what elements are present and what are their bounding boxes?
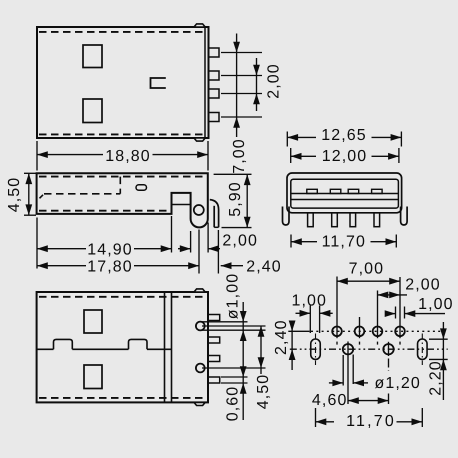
svg-text:11,70: 11,70 <box>322 234 366 251</box>
footprint hole A1 vertical centre line <box>336 277 338 339</box>
dim 1,00 left extension line b <box>319 306 321 334</box>
view3 hidden edge top (dashed) <box>39 296 204 298</box>
dim 2,40 footprint arrow top <box>289 321 296 332</box>
dim 2,00 arrow bottom <box>253 94 260 105</box>
view4 receptacle shell outline <box>291 179 399 208</box>
dim 1,00 left extension line a <box>309 306 311 334</box>
view3 contact pin 2 <box>208 337 220 343</box>
extension line left edge down <box>36 218 38 269</box>
svg-text:12,00: 12,00 <box>322 148 368 165</box>
svg-text:2,00: 2,00 <box>222 233 258 250</box>
dim 11,70 tick right <box>395 235 397 248</box>
svg-text:4,60: 4,60 <box>312 392 348 409</box>
view1 contact pin 1 <box>209 48 220 57</box>
view2 hidden line top (dashed) <box>39 176 205 178</box>
view3 shell joint middle line <box>37 348 54 350</box>
svg-text:4,50: 4,50 <box>6 177 23 213</box>
dim 12,00 arrow left <box>291 153 302 160</box>
dim 1,00 right extension line b <box>404 307 406 319</box>
footprint row2 centre line (dash-dot) <box>290 348 448 350</box>
view3 rivet hole upper <box>196 322 205 331</box>
dim 17,80 arrow right <box>188 262 199 269</box>
footprint hole A4 vertical centre line <box>399 277 401 338</box>
dim 14,90 arrow left <box>37 245 48 252</box>
dim 12,00 tick left <box>290 148 292 163</box>
svg-text:2,00: 2,00 <box>265 63 282 99</box>
view2 solder pin end <box>214 226 218 228</box>
dim 7,00 footprint arrow right <box>389 278 400 285</box>
view2 solder pin outer edge <box>210 200 219 228</box>
dim oe1,20 extension line a <box>342 355 344 386</box>
pin4 top extension <box>221 376 248 378</box>
dim 2,00 dimension line vertical <box>256 58 258 111</box>
view3 joint tab right <box>129 339 148 349</box>
view1 crimp bump bottom edge <box>194 138 205 141</box>
view1 hidden edge bottom (dashed) <box>39 133 204 135</box>
svg-text:12,65: 12,65 <box>321 127 367 144</box>
dim oe1,20 arrow a <box>329 382 343 384</box>
view1 latch hole lower <box>83 99 102 123</box>
dim 18,80 arrow left <box>37 151 48 158</box>
dim 11,70 arrow left <box>291 238 302 245</box>
dim 4,60 dimension line <box>348 400 389 402</box>
dim 2,00 footprint arrow left <box>378 292 389 299</box>
dim oe1,00 arrow top <box>240 311 247 322</box>
footprint shield hole B2 <box>383 344 393 354</box>
dim 4,50 rivet arrow bottom <box>258 357 265 368</box>
view2 side oval hole <box>136 185 147 191</box>
dim 5,90 dimension line <box>246 174 248 227</box>
extension line hook right x=208.1 <box>207 223 209 253</box>
svg-text:ø1,00: ø1,00 <box>225 273 242 319</box>
view4 mount tab left <box>283 207 290 226</box>
view3 rivet hole lower <box>196 364 205 373</box>
view4 contact 2 <box>330 189 341 193</box>
svg-text:2,40: 2,40 <box>273 319 290 355</box>
view1 latch hole upper <box>83 45 102 68</box>
view3 crimp bump top edge <box>194 289 205 292</box>
footprint shield hole B2 vertical centre line <box>388 342 390 356</box>
view4 contact 4 <box>372 189 383 193</box>
dim 4,50 arrow top <box>25 173 32 184</box>
view3 latch hole upper <box>84 310 102 333</box>
dim 5,90 extension line top <box>214 173 252 175</box>
svg-text:4,50: 4,50 <box>255 374 272 410</box>
footprint row1 centre line (dash-dot) <box>311 330 444 332</box>
dim 4,50 tick top <box>24 172 36 174</box>
dim 2,00 arrow top <box>253 65 260 76</box>
view1 shell end inner line <box>204 28 206 137</box>
view2 rivet hole <box>194 205 204 215</box>
dim 11,70 footprint tick right <box>421 408 423 427</box>
view4 receptacle outer flange outline <box>287 173 402 213</box>
view1 crimp bump top edge <box>194 24 205 27</box>
dim 18,80 extension line left <box>36 141 38 171</box>
dim 5,90 extension line bottom <box>222 227 252 229</box>
dim 0,60 arrow top <box>240 366 247 377</box>
dim 2,20 dimension line <box>442 322 444 400</box>
view3 shell seam line left <box>164 293 166 402</box>
extension line hook centre x=199 <box>198 230 200 274</box>
view3 shell seam line right <box>171 293 173 402</box>
view1 center detent detail <box>151 78 166 88</box>
rivet lower centre extension <box>202 367 266 369</box>
dim 5,90 arrow top <box>244 174 251 185</box>
view1 hidden edge top (dashed) <box>39 31 204 33</box>
view2 hidden contour chamfer (dashed) <box>40 194 45 199</box>
dim 4,50 dimension line <box>28 173 30 215</box>
dim 7,00 dimension line vertical <box>236 34 238 138</box>
view1 contact pin 2 <box>209 71 220 80</box>
pin3 extension line <box>221 93 262 95</box>
footprint slot left centre line (dash-dot) <box>315 334 317 366</box>
dim 18,80 dimension line <box>37 154 103 156</box>
view3 latch hole lower <box>84 365 102 389</box>
rivet upper tangent extension bottom <box>202 329 266 331</box>
svg-text:14,90: 14,90 <box>87 241 133 258</box>
dim oe1,20 extension line b2 <box>352 355 354 385</box>
view4 leg 3 <box>350 213 356 227</box>
footprint slot right centre line (dash-dot) <box>421 334 423 366</box>
pin1 extension line <box>221 52 262 54</box>
dim 7,00 footprint dimension line <box>337 280 400 282</box>
rivet upper tangent extension top <box>202 321 248 323</box>
view1 contact pin 4 <box>209 113 220 122</box>
footprint slot right <box>418 339 428 359</box>
dim 12,65 tick right <box>400 132 402 147</box>
view4 tongue bottom edge <box>291 199 399 201</box>
dim 1,00 right extension line a <box>395 307 397 319</box>
footprint shield hole B1 <box>343 344 353 354</box>
footprint hole A2 <box>355 327 365 337</box>
dim 2,40 footprint arrow bottom <box>289 349 296 360</box>
extension line hook left x=190.6 <box>190 231 192 253</box>
rivet upper centre extension <box>202 325 266 327</box>
svg-text:7,00: 7,00 <box>349 261 385 278</box>
dim 2,20 arrow top <box>440 328 447 339</box>
dim 2,00 footprint arrow right <box>389 292 400 299</box>
view3 joint tab left <box>54 339 73 349</box>
view3 contact pin 4 <box>208 377 220 383</box>
footprint hole A2 vertical tick <box>359 317 361 338</box>
dim 18,80 extension line right <box>207 141 209 171</box>
footprint hole A3 vertical centre line <box>377 291 379 339</box>
pin2 extension line <box>221 75 262 77</box>
dim 11,70 footprint arrow left <box>316 418 327 425</box>
svg-text:7,00: 7,00 <box>231 138 248 174</box>
dim 12,00 tick right <box>398 148 400 163</box>
view2 latch detail bottom line <box>172 204 191 206</box>
dim 4,50 tick bottom <box>24 214 36 216</box>
svg-text:1,00: 1,00 <box>292 293 328 310</box>
dim 4,50 arrow bottom <box>25 204 32 215</box>
view4 mount tab right <box>401 207 408 226</box>
dim line vertical x=243.2 <box>242 302 244 420</box>
dim 12,00 dimension line <box>291 155 316 157</box>
svg-text:17,80: 17,80 <box>87 258 133 275</box>
view4 tongue top edge <box>291 193 399 195</box>
dim 14,90 dimension line <box>37 248 86 250</box>
view2 hidden contour horizontal (dashed) <box>44 193 120 195</box>
view1 contact pin 3 <box>209 89 220 98</box>
view4 contact 1 <box>307 189 318 193</box>
dim 11,70 arrow right <box>386 238 397 245</box>
dim oe1,20 arrow b <box>353 380 364 387</box>
dim 11,70 dimension line <box>291 241 317 243</box>
view3 plug bottom-view body shell <box>37 292 208 402</box>
view3 crimp bump bottom edge <box>194 402 205 405</box>
dim 2,40 arrow <box>221 262 232 269</box>
dim 7,00 footprint arrow left <box>337 278 348 285</box>
dim 4,60 arrow left <box>348 397 359 404</box>
dim 5,90 arrow bottom <box>244 217 251 228</box>
view2 solder pin inner edge <box>213 206 215 228</box>
dim 1,00 right arrow a <box>385 313 396 315</box>
dim 2,00 hook arrow right <box>208 245 219 252</box>
dim 12,65 tick left <box>286 132 288 147</box>
dim 18,80 arrow right <box>197 151 208 158</box>
dim 1,00 right arrow b <box>405 310 416 317</box>
dim oe1,00 arrow bottom <box>240 330 247 341</box>
dim 2,20 extension line top <box>429 338 448 340</box>
dim 1,00 left arrow b <box>320 310 331 317</box>
dim 2,00 footprint dimension line <box>378 294 408 296</box>
dim 12,65 dimension line <box>287 136 316 138</box>
pin4 bottom extension <box>221 382 248 384</box>
view1 plug top-view body shell <box>37 27 209 138</box>
dim 2,20 arrow bottom <box>440 359 447 370</box>
dim 1,00 left arrow a <box>296 312 311 314</box>
dim 2,00 hook arrow left <box>178 248 191 250</box>
svg-text:18,80: 18,80 <box>105 148 151 165</box>
dim 11,70 tick left <box>290 235 292 248</box>
svg-text:0,60: 0,60 <box>225 386 242 422</box>
dim 7,00 arrow bottom <box>233 117 240 128</box>
dim 2,40 footprint dimension line <box>291 322 293 371</box>
view3 hidden edge bottom (dashed) <box>39 397 204 399</box>
dim 12,00 arrow right <box>388 153 399 160</box>
dim 14,90 arrow right <box>161 245 172 252</box>
svg-text:ø1,20: ø1,20 <box>375 375 421 392</box>
footprint slot left <box>311 339 321 359</box>
svg-text:2,40: 2,40 <box>246 258 282 275</box>
footprint hole A3 <box>373 327 383 337</box>
svg-text:5,90: 5,90 <box>227 181 244 217</box>
view3 contact pin 3 <box>208 356 220 362</box>
view4 leg 4 <box>374 213 380 227</box>
footprint hole A1 <box>332 327 342 337</box>
dim 2,20 extension line bottom <box>429 358 448 360</box>
view2 hidden contour vertical (dashed) <box>119 177 121 194</box>
view2 hidden line bottom (dashed) <box>39 210 168 212</box>
extension line step x=171.5 <box>171 216 173 253</box>
svg-text:1,00: 1,00 <box>418 296 454 313</box>
view4 leg 1 <box>308 213 314 227</box>
view4 contact 3 <box>348 189 359 193</box>
view2 side-view shell outline <box>37 173 208 227</box>
dim 7,00 arrow top <box>233 42 240 53</box>
svg-text:11,70: 11,70 <box>346 413 396 430</box>
svg-text:2,20: 2,20 <box>427 360 444 396</box>
svg-text:2,00: 2,00 <box>405 277 441 294</box>
dim 4,50 rivet arrow top <box>258 326 265 337</box>
view4 leg 2 <box>332 213 338 227</box>
dim 17,80 arrow left <box>37 262 48 269</box>
dim 12,65 arrow right <box>391 134 402 141</box>
dim 11,70 footprint tick left <box>315 408 317 427</box>
dim 4,60 arrow right <box>378 397 389 404</box>
dim 12,65 arrow left <box>287 134 298 141</box>
footprint row1 centre line solid left segment <box>288 330 309 332</box>
dim 11,70 footprint arrow right <box>412 418 423 425</box>
pin4 extension line <box>221 116 262 118</box>
dim 11,70 footprint dimension line <box>316 421 335 423</box>
footprint shield hole B1 vertical centre line <box>347 342 349 405</box>
view3 contact pin 1 <box>208 315 220 321</box>
dim 4,50 rivet spacing dimension line <box>260 326 262 374</box>
dim 0,60 arrow bottom <box>240 383 247 394</box>
extension line pin right x=218.4 <box>217 230 219 274</box>
dim 17,80 dimension line <box>37 265 86 267</box>
footprint hole A4 <box>395 327 405 337</box>
